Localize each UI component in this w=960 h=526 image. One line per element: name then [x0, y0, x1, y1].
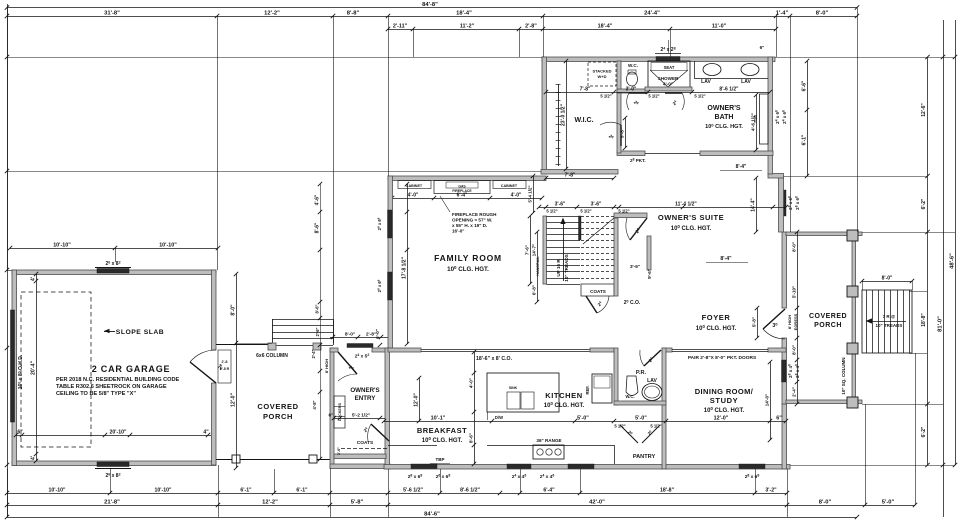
svg-text:20 C.O.: 20 C.O. [624, 300, 641, 307]
porch2 col 2 [847, 286, 858, 297]
svg-text:14'-4": 14'-4" [751, 198, 757, 212]
left ext y343 [236, 343, 272, 345]
window bottom 1 [411, 464, 437, 469]
svg-text:11'-4 1/2": 11'-4 1/2" [675, 202, 697, 208]
svg-text:LAV: LAV [741, 79, 751, 85]
svg-text:100 CLG. HGT.: 100 CLG. HGT. [447, 265, 489, 273]
svg-text:20'-4": 20'-4" [31, 360, 37, 375]
svg-text:PORCH: PORCH [814, 322, 842, 329]
window bottom 3 [568, 464, 594, 469]
wall conn [768, 174, 784, 179]
svg-text:BATH: BATH [715, 114, 734, 121]
left ext y171 [7, 171, 541, 173]
svg-text:3'-6": 3'-6" [630, 264, 640, 269]
svg-text:17'-8 1/2": 17'-8 1/2" [402, 256, 408, 279]
garage interior dim [16, 435, 211, 437]
bath hall door [629, 92, 646, 94]
right ext y465 [790, 465, 955, 467]
svg-text:100 CLG. HGT.: 100 CLG. HGT. [704, 406, 745, 414]
svg-text:6": 6" [17, 430, 23, 436]
svg-text:5'-8": 5'-8" [620, 128, 625, 138]
fireplace [434, 181, 490, 194]
svg-text:48'-6": 48'-6" [950, 253, 956, 269]
porch right chain [320, 184, 322, 459]
entry coats shelf dashed [341, 448, 388, 450]
svg-text:26 x 82: 26 x 82 [105, 473, 120, 480]
svg-text:5 1/2": 5 1/2" [648, 94, 659, 99]
family left vdim [407, 184, 409, 344]
garage door bottom [97, 462, 129, 467]
window family left 2 [388, 272, 393, 300]
svg-text:8'-0": 8'-0" [819, 500, 832, 506]
svg-text:11'-0": 11'-0" [712, 24, 727, 30]
svg-text:2'-4": 2'-4" [792, 387, 797, 397]
wall right upper [779, 176, 784, 232]
svg-text:2'-11": 2'-11" [393, 24, 408, 30]
svg-text:CABINET: CABINET [501, 184, 518, 188]
svg-text:8'-0": 8'-0" [792, 345, 797, 355]
svg-text:5'-8": 5'-8" [351, 500, 364, 506]
bottom ext x755 [755, 469, 757, 493]
entry lockers [334, 396, 345, 428]
bottom ext x218 [218, 465, 220, 517]
svg-text:4'-0": 4'-0" [408, 193, 419, 199]
suite top dim [539, 207, 619, 209]
pocket door suite [645, 153, 700, 155]
svg-text:8'-0": 8'-0" [792, 242, 797, 252]
svg-text:8'-4": 8'-4" [720, 256, 732, 262]
svg-text:10'-10": 10'-10" [155, 488, 173, 494]
svg-text:24 x 52: 24 x 52 [355, 353, 370, 359]
svg-text:8' HIGH: 8' HIGH [324, 359, 329, 373]
porch column left [232, 455, 240, 463]
island vdim [474, 352, 476, 421]
svg-text:6": 6" [760, 45, 765, 50]
wall pr bottom [614, 401, 666, 405]
svg-text:2'-6": 2'-6" [315, 327, 320, 336]
svg-text:84'-8": 84'-8" [422, 2, 438, 8]
top dim line 1 [7, 7, 857, 9]
wic vdim [566, 61, 568, 169]
stair vdim2 [533, 176, 535, 213]
svg-text:23'-0 1/2": 23'-0 1/2" [561, 103, 567, 126]
svg-text:6'-6": 6'-6" [802, 80, 808, 91]
svg-text:10'-10": 10'-10" [159, 243, 177, 249]
breakfast vdim [419, 378, 421, 421]
svg-text:100 CLG. HGT.: 100 CLG. HGT. [696, 324, 737, 332]
wall hall divider [617, 93, 621, 153]
porch2 top rail [786, 232, 862, 236]
svg-text:4'-0": 4'-0" [469, 378, 474, 388]
svg-text:14'-0": 14'-0" [765, 394, 770, 407]
right vchain a [927, 57, 929, 465]
svg-text:31'-8": 31'-8" [104, 11, 120, 17]
svg-text:2 CAR GARAGE: 2 CAR GARAGE [92, 364, 171, 374]
svg-text:2'-8": 2'-8" [525, 24, 537, 30]
svg-text:4'-6 1/2": 4'-6 1/2" [751, 113, 756, 131]
svg-text:100 CLG. HGT.: 100 CLG. HGT. [422, 436, 463, 444]
stair break line [583, 218, 614, 244]
svg-text:84'-6": 84'-6" [424, 512, 440, 518]
svg-text:OWNER'S: OWNER'S [707, 105, 740, 112]
svg-text:COVERED: COVERED [809, 313, 847, 320]
svg-text:3'-0": 3'-0" [337, 447, 341, 455]
svg-text:W.C.: W.C. [625, 394, 634, 399]
garage top dim row [10, 248, 218, 250]
wall suite hall [614, 213, 647, 218]
top ext x333 [333, 16, 335, 343]
porch2 col 4 [847, 397, 858, 408]
svg-text:10'-10": 10'-10" [53, 243, 71, 249]
top ext x670 [670, 29, 672, 57]
svg-text:12'-2": 12'-2" [264, 11, 280, 17]
bottom dim line 1 [7, 517, 857, 519]
wall wc left [617, 61, 621, 93]
svg-text:5'-2 1/2": 5'-2 1/2" [352, 413, 370, 419]
svg-text:4'-8": 4'-8" [312, 400, 317, 409]
svg-text:5 1/2": 5 1/2" [580, 209, 591, 214]
right ext y57 [775, 57, 955, 59]
cabinet left [398, 181, 431, 189]
coats door [586, 296, 597, 313]
svg-text:24 x 46: 24 x 46 [512, 474, 527, 480]
svg-text:4': 4' [31, 277, 37, 281]
svg-text:8'-6 1/2": 8'-6 1/2" [719, 87, 739, 93]
bottom ext x274 [274, 469, 276, 493]
svg-text:7'-6": 7'-6" [525, 245, 530, 255]
window right 1 [782, 190, 787, 216]
wall family bottom seg [388, 348, 421, 352]
svg-text:SEAT: SEAT [664, 65, 675, 70]
svg-text:CABINET: CABINET [406, 184, 423, 188]
porch2 bottom rail [786, 400, 862, 404]
svg-text:PORCH: PORCH [263, 412, 293, 421]
svg-text:24 x 46: 24 x 46 [540, 474, 555, 480]
svg-text:100 CLG. HGT.: 100 CLG. HGT. [705, 122, 743, 130]
porch column top left [268, 343, 276, 350]
svg-text:9'-6": 9'-6" [647, 269, 652, 279]
svg-text:TBP: TBP [436, 457, 445, 462]
svg-text:28 x 68: 28 x 68 [408, 474, 423, 480]
svg-text:6": 6" [776, 416, 782, 422]
wall garage bottom [12, 461, 216, 466]
wall kitchen top seg [590, 348, 614, 352]
svg-text:OWNER'S: OWNER'S [350, 387, 379, 394]
svg-text:24 x 68: 24 x 68 [775, 110, 780, 124]
svg-text:6'-8": 6'-8" [532, 285, 537, 295]
stair divider [579, 216, 582, 240]
right stairs arrow [870, 321, 906, 323]
wall entry top [330, 348, 338, 352]
svg-text:OPENING = 57" W.: OPENING = 57" W. [452, 218, 492, 223]
svg-text:18'-6" x 8' C.O.: 18'-6" x 8' C.O. [476, 356, 513, 362]
svg-text:STUDY: STUDY [710, 396, 738, 405]
svg-text:28 PKT.: 28 PKT. [630, 158, 646, 163]
top dim line 2 [7, 16, 857, 18]
suite vdim 14-4 [756, 178, 758, 232]
wall garage left [12, 270, 17, 466]
kitchen counter [487, 445, 614, 447]
right stairs [862, 290, 912, 353]
svg-text:8'-8": 8'-8" [347, 11, 360, 17]
stair treads [547, 216, 581, 218]
slope slab arrow [104, 331, 115, 333]
svg-text:5'-0": 5'-0" [882, 500, 895, 506]
window bottom 4 [739, 464, 765, 469]
bath lav left [703, 64, 721, 76]
wall pr right [662, 348, 666, 405]
svg-text:SHOWER: SHOWER [658, 76, 679, 81]
svg-text:5 1/2": 5 1/2" [600, 94, 611, 99]
svg-text:5 1/2": 5 1/2" [614, 424, 625, 429]
garage overhead door left wall [11, 310, 15, 422]
entry door [338, 352, 357, 374]
right ext y404 [862, 404, 943, 406]
lav counter [694, 78, 768, 80]
svg-text:1'-4": 1'-4" [776, 11, 789, 17]
svg-text:COVERED: COVERED [257, 402, 298, 411]
svg-text:12'-0": 12'-0" [714, 416, 729, 422]
bath dim chain [546, 92, 770, 94]
svg-text:8'-0": 8'-0" [231, 304, 237, 316]
svg-text:DINING ROOM/: DINING ROOM/ [695, 387, 754, 396]
svg-text:7'-8": 7'-8" [580, 87, 591, 93]
svg-text:100 CLG. HGT.: 100 CLG. HGT. [671, 224, 712, 232]
wall wc bottom [617, 89, 648, 93]
top ext x543 [543, 16, 545, 57]
svg-text:4'-0": 4'-0" [663, 82, 673, 87]
svg-text:6": 6" [329, 413, 334, 419]
top ext x519 [519, 29, 521, 57]
svg-text:COATS: COATS [590, 289, 606, 294]
svg-text:5 1/2": 5 1/2" [694, 94, 705, 99]
svg-text:6'-2": 6'-2" [921, 426, 927, 437]
window family left 1 [388, 210, 393, 238]
svg-text:FIREPLACE ROUGH: FIREPLACE ROUGH [452, 212, 497, 217]
left vert chain [7, 4, 9, 517]
wall entry bottom [330, 464, 390, 469]
svg-text:2'-8: 2'-8 [222, 360, 228, 364]
svg-text:5'-6 1/2": 5'-6 1/2" [403, 488, 423, 494]
wall garage top [12, 270, 216, 275]
stair upper treads dashed [581, 216, 614, 218]
svg-text:FAMILY ROOM: FAMILY ROOM [434, 253, 502, 263]
svg-text:UP 16 R: UP 16 R [556, 259, 561, 277]
svg-text:10'-1": 10'-1" [431, 416, 446, 422]
svg-text:10" TREADS: 10" TREADS [564, 254, 569, 281]
svg-text:KITCHEN: KITCHEN [545, 391, 583, 400]
family co line [421, 349, 590, 351]
entry dim top [330, 337, 390, 339]
wall bath right [768, 57, 773, 174]
svg-text:6'-8 R: 6'-8 R [220, 367, 230, 371]
svg-text:x 55" H. x 19" D.: x 55" H. x 19" D. [452, 223, 487, 228]
svg-text:21'-8": 21'-8" [104, 500, 120, 506]
left ext y57 [7, 57, 542, 59]
pr door [644, 350, 661, 366]
right vchain c [955, 20, 957, 465]
svg-text:4'-6": 4'-6" [315, 194, 321, 205]
right ext y232 [862, 232, 955, 234]
island vdim2 [474, 421, 476, 464]
svg-text:5'-0": 5'-0" [577, 416, 589, 422]
porch2 col 3 [847, 343, 858, 354]
svg-text:26 x 68: 26 x 68 [436, 474, 451, 480]
wall family left [388, 176, 393, 348]
wall family top [388, 176, 546, 181]
svg-text:10'-10": 10'-10" [49, 488, 67, 494]
bottom ext x7 [7, 469, 9, 517]
top ext x388 [388, 16, 390, 176]
svg-text:CEILING TO BE 5/8" TYPE "X": CEILING TO BE 5/8" TYPE "X" [56, 391, 136, 397]
svg-text:8'-4": 8'-4" [736, 164, 747, 170]
wall small suite [647, 236, 651, 270]
front door [763, 309, 785, 329]
svg-text:6x6 COLUMN: 6x6 COLUMN [256, 353, 288, 359]
wall bath bottom right [700, 151, 773, 156]
svg-text:36" RANGE: 36" RANGE [536, 438, 561, 443]
bottom dim line 2 [7, 505, 915, 507]
svg-text:3'-6": 3'-6" [591, 202, 602, 208]
top dim line 3 [388, 29, 776, 31]
entry closet wall [334, 454, 386, 459]
porch slab top edge [216, 344, 272, 346]
porch steps [272, 319, 333, 321]
svg-text:160 x 80 O.H.D.: 160 x 80 O.H.D. [18, 354, 25, 389]
svg-text:5'-8": 5'-8" [752, 317, 757, 327]
stair left wall [543, 216, 547, 284]
bottom ext x865 [865, 404, 867, 505]
suite door [630, 218, 647, 240]
wall house bottom [384, 465, 790, 470]
svg-text:3'-2": 3'-2" [765, 488, 777, 494]
top ext x7 [7, 8, 9, 271]
wc vdim [625, 118, 627, 148]
window top 2-4x2-8 [656, 57, 680, 62]
cabinet right [493, 181, 526, 189]
entry dim mid [334, 418, 385, 420]
top ext x857 [857, 8, 859, 233]
svg-text:26 x 82: 26 x 82 [105, 261, 120, 268]
svg-text:W+D: W+D [598, 74, 607, 79]
svg-text:5 1/2": 5 1/2" [650, 424, 661, 429]
kitchen island [487, 373, 559, 412]
stair arrow [563, 222, 565, 281]
svg-text:D/W: D/W [495, 415, 503, 420]
svg-text:12'-2": 12'-2" [262, 500, 278, 506]
svg-text:14'-7": 14'-7" [532, 244, 537, 257]
svg-text:8' HIGH: 8' HIGH [787, 315, 792, 329]
bottom ext x787 [787, 469, 789, 517]
svg-text:PAIR 2'-8"X 8'-0" PKT. DOORS: PAIR 2'-8"X 8'-0" PKT. DOORS [688, 355, 757, 361]
svg-text:42'-0": 42'-0" [589, 500, 605, 506]
porch bottom edge [216, 459, 330, 461]
window bottom 2 [507, 464, 531, 469]
porch vertical dim [236, 274, 238, 468]
svg-text:5'-10": 5'-10" [792, 286, 797, 298]
right stairs dim [862, 281, 912, 283]
svg-text:6'-1": 6'-1" [802, 134, 808, 145]
svg-text:8'-6": 8'-6" [469, 433, 474, 443]
top ext x217 [217, 16, 219, 270]
stair vdim [530, 216, 532, 284]
kitchen dim chain [384, 421, 786, 423]
range [533, 445, 564, 459]
svg-text:18'-8": 18'-8" [921, 313, 927, 327]
svg-text:PANTRY: PANTRY [633, 454, 656, 460]
svg-text:PER 2018 N.C. RESIDENTIAL BUIL: PER 2018 N.C. RESIDENTIAL BUILDING CODE [56, 377, 180, 383]
garage slab dashed line [21, 292, 91, 447]
svg-text:7 R @: 7 R @ [883, 314, 896, 319]
svg-text:ENTRY: ENTRY [355, 395, 377, 402]
foyer dining vdim [770, 362, 772, 440]
right vchain b [943, 20, 945, 517]
svg-text:SINK: SINK [509, 386, 518, 390]
bottom ext x520 [520, 469, 522, 493]
bath vdim [756, 95, 758, 150]
svg-text:6'-1": 6'-1" [240, 488, 252, 494]
svg-text:5'-4 1/2": 5'-4 1/2" [528, 185, 533, 202]
svg-text:12'-6": 12'-6" [921, 103, 927, 117]
svg-text:8'-6 1/2": 8'-6 1/2" [460, 488, 480, 494]
entry window label [347, 344, 373, 348]
svg-text:LAV: LAV [701, 79, 711, 85]
coats foyer box [581, 284, 614, 296]
svg-text:2'-4": 2'-4" [311, 349, 316, 358]
wall pantry right [662, 405, 666, 469]
garage vertical dim [36, 274, 38, 461]
shower wall bottom [645, 87, 692, 91]
stair right wall [614, 218, 618, 296]
svg-text:GAS: GAS [458, 185, 466, 189]
wall pr left [614, 348, 618, 405]
svg-text:20'-10": 20'-10" [110, 430, 128, 436]
pr lav [642, 384, 662, 401]
svg-text:6'-2": 6'-2" [921, 198, 927, 209]
fridge [592, 374, 612, 403]
svg-text:28 x 46: 28 x 46 [788, 364, 793, 378]
wic dim 7-8 [546, 178, 614, 180]
svg-text:7'-8": 7'-8" [565, 173, 576, 179]
right ext y176 [784, 176, 927, 178]
bottom ext x580 [580, 469, 582, 493]
bottom ext x440 [440, 469, 442, 493]
svg-text:24'-4": 24'-4" [644, 11, 660, 17]
foyer right vdim [757, 308, 759, 338]
wall garage right upper [212, 270, 217, 350]
bottom ext x388 [388, 469, 390, 517]
svg-text:OWNER'S SUITE: OWNER'S SUITE [658, 213, 724, 222]
svg-text:4'-0": 4'-0" [511, 193, 522, 199]
wic closet rod [558, 84, 560, 166]
svg-text:STACKED: STACKED [592, 69, 611, 74]
svg-text:24 x 68: 24 x 68 [782, 110, 787, 124]
wic door [620, 125, 622, 146]
porch column right [309, 455, 317, 463]
shower door [665, 92, 682, 94]
wall right mid lower [782, 338, 787, 404]
suite dim right [619, 207, 786, 209]
svg-text:P.R.: P.R. [636, 370, 647, 376]
svg-text:16'-0": 16'-0" [452, 229, 464, 234]
svg-text:6'-4": 6'-4" [457, 193, 468, 199]
bath lav right [741, 64, 759, 76]
svg-text:HANDRAIL: HANDRAIL [536, 256, 540, 276]
wall garage right lower [212, 383, 217, 465]
svg-text:18'-8": 18'-8" [660, 488, 675, 494]
garage door top [97, 269, 129, 274]
fam vdim right [537, 232, 539, 302]
